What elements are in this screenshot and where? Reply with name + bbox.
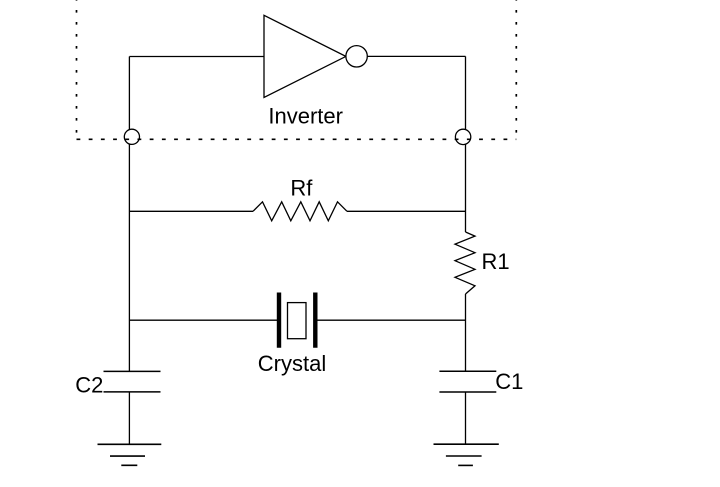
IC package boundary (dotted box, left edge)	[76, 0, 78, 139]
resistor R1 (zigzag)	[455, 232, 475, 294]
IC package boundary (dotted box, bottom edge)	[77, 138, 517, 140]
crystal X1 left electrode plate	[277, 293, 281, 348]
wire: crystal right lead to right rail	[317, 319, 465, 321]
svg-text:R1: R1	[482, 249, 510, 274]
capacitor C2 bottom plate	[104, 391, 161, 393]
node: IC pin on left (open circle)	[124, 129, 139, 144]
wire: C1 to ground	[465, 392, 467, 444]
inverter U1 output bubble	[346, 46, 367, 67]
svg-text:C1: C1	[495, 369, 523, 394]
wire: crystal left lead from left rail	[129, 319, 277, 321]
resistor Rf (zigzag)	[253, 202, 347, 221]
IC package boundary (dotted box, right edge)	[515, 0, 517, 139]
crystal X1 right electrode plate	[313, 293, 317, 348]
wire: Rf right lead to right rail	[347, 210, 466, 212]
wire: C2 to ground	[128, 392, 130, 444]
svg-text:Crystal: Crystal	[258, 351, 326, 376]
svg-text:Inverter: Inverter	[268, 104, 343, 129]
ground (right, under C1)	[434, 444, 499, 465]
svg-text:Rf: Rf	[290, 176, 313, 201]
capacitor C2 top plate	[104, 370, 161, 372]
svg-text:C2: C2	[75, 373, 103, 398]
wire: right vertical rail (below R1 to C1)	[465, 294, 467, 371]
ground (left, under C2)	[98, 444, 162, 465]
crystal X1 body rectangle	[288, 303, 307, 339]
wire: right vertical rail (top, above R1)	[465, 56, 467, 232]
op-amp / inverter U1 triangle	[264, 15, 346, 97]
wire: Rf left lead from left rail	[129, 210, 253, 212]
wire: inverter output horizontal segment	[367, 55, 465, 57]
node: IC pin on right (open circle)	[455, 129, 470, 144]
wire: inverter input horizontal segment	[129, 56, 264, 58]
wire: left vertical rail	[128, 57, 130, 372]
capacitor C1 bottom plate	[439, 391, 496, 393]
capacitor C1 top plate	[439, 370, 496, 372]
